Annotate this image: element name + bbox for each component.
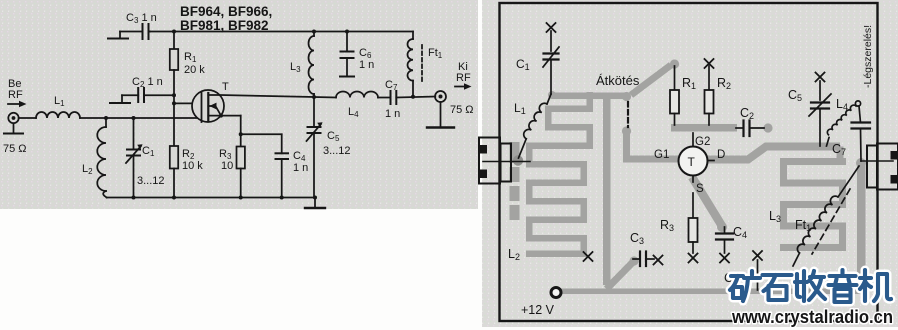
ground (C3) [108,32,128,39]
svg-text:1 n: 1 n [293,162,308,174]
trace: input pad strip [510,142,520,163]
inductor L4 [314,92,391,120]
pad X L2 end [584,252,593,261]
trace: source diagonal to C4 [692,177,722,226]
capacitor C2 [122,76,174,102]
top supply rail [150,31,413,33]
right scan background [482,0,898,327]
wire source to R3 node [240,116,242,135]
svg-text:Átkötés: Átkötés [596,73,640,88]
capacitor C6 (partially hidden) [724,251,762,290]
svg-text:RF: RF [8,89,23,101]
wire G2 [174,102,202,104]
svg-text:-Légszerelés!: -Légszerelés! [862,25,874,88]
svg-text:75 Ω: 75 Ω [450,104,474,116]
resistor R1 [170,32,205,96]
trace: jumper lower pad to G1 [622,126,631,135]
resistor R1 [670,66,696,125]
node drain / L3 / L4 / C5 [312,95,316,99]
jumper Atkotes (dashed) [627,102,629,127]
input arrow [8,101,27,108]
printed meander L3 [780,158,846,165]
pcb black parts [479,23,898,317]
+12V pad [521,288,561,318]
capacitor C7 [832,106,870,161]
input coax connector [8,113,36,123]
ground symbol [305,198,325,209]
trimmer capacitor C5 [788,73,831,147]
node C1 tap [132,116,136,120]
inductor L4 (air coil) [827,97,861,146]
output connector (right edge) [861,144,898,190]
inductor L2 [82,118,107,198]
output labels Ki RF [450,61,474,116]
transistor T (dual-gate MOSFET) [192,81,314,122]
capacitor C3 [630,231,663,266]
svg-text:75 Ω: 75 Ω [3,143,27,155]
svg-text:C3 1 n: C3 1 n [126,12,157,25]
capacitor C2 [736,106,764,136]
ground rail (bottom) [107,197,315,199]
trace: output vertical run [857,162,866,292]
transistor T [654,133,725,195]
label L3 [769,209,781,224]
resistor R2 [705,59,732,125]
trace: +12V rail [556,289,861,295]
svg-text:G1: G1 [654,149,669,161]
ground (input) [4,123,23,133]
svg-text:C2 1 n: C2 1 n [132,76,163,89]
ground (output) [427,102,454,128]
resistor R3 [660,193,698,263]
svg-text:G2: G2 [695,136,710,148]
printed meander L1/L2 serpentine [545,106,593,113]
svg-text:1 n: 1 n [385,108,400,120]
node L2 tap [104,116,108,120]
board frame [500,3,878,321]
svg-text:www.crystalradio.cn: www.crystalradio.cn [731,307,893,327]
node G2 net [172,93,176,97]
svg-text:S: S [696,183,704,195]
capacitor C3 [120,12,157,39]
label L2 [508,247,520,262]
trimmer capacitor C1 [516,31,559,94]
node top rail / R1 [172,30,176,34]
capacitor C7 [385,79,435,120]
trimmer capacitor C5 [307,97,351,198]
input connector (left edge) [479,138,530,184]
svg-text:3...12: 3...12 [323,145,351,157]
trace: drain run to L3 meander [706,147,840,160]
legszereles note (air mounting) [862,25,874,88]
trace: diagonal feed to R1 top [628,62,676,99]
wire R1/C2 node down to R2 [173,95,175,146]
capacitor C6 [340,30,374,77]
inductor L1 (air coil to input pad) [514,94,551,158]
svg-text:BF964, BF966,: BF964, BF966, [180,4,272,19]
svg-text:10 k: 10 k [182,160,203,172]
svg-text:+12 V: +12 V [521,303,555,317]
svg-text:3...12: 3...12 [137,175,165,187]
capacitor C4 [276,134,309,197]
output coax connector [435,91,446,102]
filter coil Ft1 [408,32,443,99]
resistor R3 [219,134,245,197]
svg-text:T: T [222,81,229,93]
filter coil Ft1 (diagonal with core dashes) [793,166,859,266]
input labels Be RF [8,78,23,101]
trace: G2 row under R1,R2 [671,124,737,132]
ground (C2) [110,95,130,103]
title transistor types [180,4,272,33]
trimmer capacitor C1 [126,118,165,198]
trace: top run from L1/C1 node to jumper pad [552,93,628,100]
svg-text:RF: RF [456,72,471,84]
inductor L1 [36,95,202,118]
inductor L3 [290,30,316,98]
pad X C1 top [547,23,556,32]
left scan background [0,0,478,209]
svg-text:T: T [688,155,696,169]
capacitor C4 [716,225,747,263]
svg-text:20 k: 20 k [184,64,205,76]
svg-text:10: 10 [221,160,233,172]
svg-text:D: D [717,149,725,161]
resistor R2 [170,146,203,198]
svg-text:1 n: 1 n [359,59,374,71]
trace: main trunk [603,95,611,285]
